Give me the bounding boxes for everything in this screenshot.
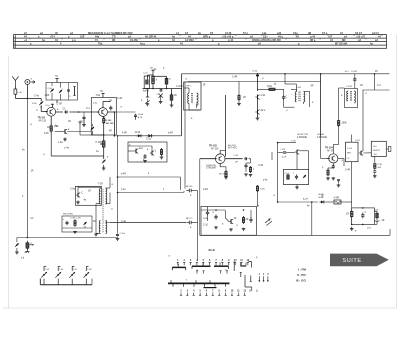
switch contact <box>224 293 226 296</box>
node A <box>14 44 16 46</box>
node A <box>14 35 387 49</box>
wire <box>194 191 197 262</box>
wire <box>103 123 105 135</box>
node T1 <box>228 259 230 262</box>
node X2 <box>117 98 123 100</box>
wire <box>374 220 377 225</box>
switch bar <box>172 264 185 270</box>
node A <box>258 43 261 46</box>
ground <box>350 227 354 231</box>
svg-text:OSCILLATEUR p MF-FM: OSCILLATEUR p MF-FM <box>252 39 281 42</box>
capacitor C2 <box>63 108 69 113</box>
node V2 <box>297 273 306 277</box>
node A <box>14 40 16 42</box>
wire <box>50 116 52 125</box>
svg-text:4a p: 4a p <box>140 43 145 46</box>
resistor R15 <box>160 148 162 156</box>
svg-text:1-08: 1-08 <box>45 95 50 97</box>
node W <box>330 254 389 267</box>
node R2 <box>63 214 73 216</box>
wire <box>200 234 390 236</box>
svg-text:MO: MO <box>374 146 378 148</box>
ground <box>73 231 77 234</box>
svg-text:C-10a: C-10a <box>120 233 126 235</box>
node X2 <box>121 174 126 176</box>
svg-text:TR-103: TR-103 <box>209 146 217 148</box>
svg-text:1R: 1R <box>31 171 34 173</box>
capacitor C22 <box>249 217 252 223</box>
node X2 <box>287 110 289 112</box>
node T1 <box>222 259 224 262</box>
ground <box>116 238 120 241</box>
node A <box>24 32 28 35</box>
node I3 <box>206 164 217 170</box>
node X2 <box>186 79 188 81</box>
node A <box>340 32 343 35</box>
diode D3 <box>147 134 153 137</box>
resistor R8 <box>249 166 255 173</box>
node X2 <box>203 218 209 220</box>
node A <box>210 32 214 35</box>
node N <box>201 206 257 235</box>
node A <box>203 36 211 39</box>
node X1 <box>243 97 246 99</box>
node X2 <box>258 165 264 167</box>
switch contact <box>202 262 204 265</box>
resistor R14 <box>47 127 50 129</box>
node G2 <box>143 69 157 75</box>
wire <box>8 56 10 308</box>
node X2 <box>96 151 99 153</box>
wire <box>245 38 247 39</box>
trimmer capacitor C23 <box>91 124 95 135</box>
node A <box>296 36 299 39</box>
svg-text:4a0%: 4a0% <box>143 91 149 93</box>
node E2 <box>104 120 114 125</box>
node X2 <box>232 77 238 79</box>
svg-text:2R a: 2R a <box>261 110 267 112</box>
node X2 <box>130 145 132 147</box>
node X2 <box>360 85 363 87</box>
inductor L1 <box>14 86 22 98</box>
wire <box>170 102 174 107</box>
node L <box>303 198 308 201</box>
capacitor C14 <box>332 163 335 169</box>
node X2 <box>150 68 153 70</box>
switch contact <box>209 262 211 265</box>
node A <box>55 32 58 35</box>
node C2 <box>46 104 63 108</box>
ground <box>102 165 106 170</box>
wire <box>199 159 201 236</box>
wire <box>83 35 85 36</box>
node X2 <box>355 231 357 233</box>
node X2 <box>147 149 149 151</box>
svg-text:L3 OSC: L3 OSC <box>185 39 194 42</box>
node K0 <box>291 140 296 142</box>
wire <box>62 227 92 229</box>
switch contact <box>196 271 198 274</box>
wire <box>17 237 118 239</box>
wire <box>56 111 100 113</box>
node A <box>243 32 248 35</box>
node X2 <box>168 133 173 135</box>
wire <box>277 143 279 185</box>
svg-text:T6a: T6a <box>98 43 103 46</box>
wire <box>40 279 92 285</box>
svg-text:p a: p a <box>72 39 76 42</box>
node G1 <box>144 76 149 89</box>
switch contact <box>226 271 228 274</box>
node X2 <box>256 257 258 259</box>
wire <box>51 104 54 107</box>
capacitor C32 <box>116 233 126 237</box>
electrolytic C15 <box>285 173 290 179</box>
wire <box>41 105 48 111</box>
wire <box>365 38 367 39</box>
svg-text:a-4R: a-4R <box>168 133 173 135</box>
svg-text:44-150: 44-150 <box>130 39 138 42</box>
wire <box>171 89 173 95</box>
wire <box>100 91 104 97</box>
svg-text:L-06: L-06 <box>17 92 22 94</box>
capacitor C34 <box>373 168 376 174</box>
wire <box>205 35 207 36</box>
wire <box>220 164 226 172</box>
node X2 <box>307 206 310 208</box>
trimmer capacitor C28 <box>15 238 19 252</box>
capacitor C18 <box>361 212 366 218</box>
node X2 <box>121 221 127 223</box>
transistor TR1 <box>45 107 56 116</box>
svg-text:4R: 4R <box>109 131 112 133</box>
svg-text:DETECTOR: DETECTOR <box>297 134 309 136</box>
node A <box>172 36 175 39</box>
diode D1 <box>135 132 143 138</box>
node A <box>310 39 316 42</box>
node A <box>68 36 70 39</box>
svg-text:a-4R: a-4R <box>121 174 126 176</box>
svg-text:4R: 4R <box>93 221 96 223</box>
svg-text:FM-4 MHz: FM-4 MHz <box>63 214 73 216</box>
svg-text:1R: 1R <box>203 85 206 87</box>
node X2 <box>342 160 344 162</box>
node P <box>128 142 167 162</box>
svg-text:C-6R: C-6R <box>296 87 301 89</box>
wire <box>148 75 154 80</box>
switch contact <box>231 293 233 296</box>
node A <box>172 39 175 42</box>
svg-text:1R: 1R <box>346 214 349 216</box>
wire <box>278 152 295 154</box>
wire <box>332 168 334 176</box>
capacitor C12 <box>234 155 248 163</box>
node G4 <box>176 86 183 88</box>
wire <box>103 38 105 39</box>
node A <box>330 39 333 42</box>
svg-text:TR-102: TR-102 <box>104 120 112 122</box>
wire <box>61 38 63 39</box>
svg-text:II : PO: II : PO <box>297 273 306 277</box>
switch contact <box>247 262 249 265</box>
node A <box>14 37 16 39</box>
connector J1 <box>25 79 35 85</box>
node A <box>95 39 98 42</box>
node H3 <box>297 134 309 139</box>
switch bar <box>204 287 217 289</box>
node O <box>78 120 81 125</box>
svg-text:57 p: 57 p <box>243 32 248 35</box>
ground <box>15 252 19 254</box>
node X2 <box>312 102 314 104</box>
resistor R17 <box>237 82 241 106</box>
node H <box>257 73 376 75</box>
node X2 <box>112 209 114 211</box>
antenna ANT <box>12 77 18 87</box>
node U <box>259 274 270 276</box>
node Y2 <box>346 142 359 162</box>
svg-text:1R: 1R <box>174 95 177 97</box>
capacitor C16 <box>293 173 298 180</box>
svg-text:ALT-PTU: ALT-PTU <box>228 144 237 147</box>
svg-text:C-10L: C-10L <box>347 148 353 150</box>
node B <box>27 98 29 100</box>
switch contact <box>205 293 207 296</box>
svg-text:I : FM: I : FM <box>298 268 306 272</box>
node A <box>185 32 189 35</box>
svg-text:L-0a: L-0a <box>58 142 63 144</box>
switch bar <box>173 283 226 286</box>
svg-text:LIGATURE: LIGATURE <box>206 164 217 167</box>
svg-text:AFT-ATC: AFT-ATC <box>228 147 238 150</box>
node X2 <box>148 173 150 175</box>
node T2 <box>206 290 208 293</box>
wire <box>320 74 322 137</box>
wire <box>82 120 86 127</box>
node X2 <box>31 218 35 220</box>
svg-text:C-0R: C-0R <box>281 149 286 151</box>
svg-text:T-0a: T-0a <box>96 95 101 97</box>
transformer T1 winding 2 <box>99 189 107 234</box>
potentiometer P1 <box>96 140 106 149</box>
node A <box>40 32 43 35</box>
node T2 <box>225 290 227 293</box>
resistor R1 <box>50 124 59 133</box>
svg-text:C-3R: C-3R <box>57 104 63 106</box>
node A <box>222 36 234 39</box>
wire <box>55 131 91 133</box>
wire <box>67 226 85 228</box>
node T2 <box>187 290 189 293</box>
wire <box>184 88 189 93</box>
node T2 <box>219 290 221 293</box>
svg-text:1R: 1R <box>243 97 246 99</box>
node H2 <box>345 71 378 73</box>
chassis <box>25 250 30 253</box>
node M <box>352 208 375 225</box>
svg-text:1R: 1R <box>47 127 50 129</box>
ground <box>63 138 67 141</box>
wire <box>284 106 295 108</box>
transistor TR3 <box>214 154 225 164</box>
node A <box>14 47 16 49</box>
node A <box>293 32 298 35</box>
svg-text:C-4R C-1R: C-4R C-1R <box>70 218 81 220</box>
node X2 <box>88 191 91 193</box>
node X2 <box>146 139 152 141</box>
svg-text:MT DE MA: MT DE MA <box>335 43 348 46</box>
wire <box>152 73 154 76</box>
wire <box>118 176 181 178</box>
switch contact <box>186 293 188 296</box>
wire <box>50 132 52 156</box>
svg-text:C-1R: C-1R <box>117 98 123 100</box>
switch contact <box>234 262 236 265</box>
svg-text:STROBAT: STROBAT <box>206 167 217 170</box>
wire <box>374 74 376 90</box>
capacitor C13 <box>244 164 247 172</box>
node T2 <box>231 290 234 293</box>
svg-text:C-1a: C-1a <box>146 139 152 141</box>
wire <box>27 97 41 99</box>
svg-text:SC-B: SC-B <box>208 248 214 252</box>
trimmer capacitor CT4 <box>84 267 93 285</box>
node J <box>325 147 334 153</box>
wire <box>26 98 28 237</box>
switch contact <box>183 262 185 265</box>
svg-text:9V: 9V <box>100 91 103 93</box>
node A <box>145 36 157 39</box>
switch contact <box>219 271 221 274</box>
trimmer capacitor C24 <box>102 160 106 164</box>
node A <box>225 32 232 35</box>
svg-text:C-0R: C-0R <box>285 173 290 175</box>
node X2 <box>322 167 324 169</box>
wire <box>118 135 138 137</box>
node A <box>218 43 220 46</box>
transformer MF1 winding <box>188 93 198 105</box>
switch contact <box>240 273 242 278</box>
wire <box>374 156 376 163</box>
node A <box>375 39 378 42</box>
capacitor C31 <box>160 89 163 92</box>
wire <box>225 158 243 160</box>
wire <box>311 201 313 235</box>
node X2 <box>122 133 127 135</box>
node A <box>176 32 180 35</box>
wire <box>381 35 383 36</box>
wire <box>26 85 28 99</box>
switch contact <box>250 276 252 282</box>
node X2 <box>274 195 276 197</box>
capacitor C11 <box>351 71 358 89</box>
electrolytic C19 <box>374 210 379 222</box>
node F <box>78 111 80 113</box>
svg-text:III : GO: III : GO <box>296 279 307 283</box>
node X2 <box>257 206 260 208</box>
wire <box>92 134 104 136</box>
switch S1b <box>159 94 163 102</box>
capacitor C6 <box>80 112 86 124</box>
capacitor C25 <box>144 154 147 159</box>
node Q <box>75 184 103 206</box>
node U3 <box>258 280 268 282</box>
node A <box>140 43 145 46</box>
trimmer capacitor C4 <box>59 83 62 100</box>
wire <box>338 158 344 166</box>
switch contact <box>177 262 179 265</box>
electrolytic C9 <box>170 93 177 102</box>
svg-text:C-4a: C-4a <box>121 221 127 223</box>
ground <box>146 103 150 106</box>
svg-text:P-1R: P-1R <box>378 164 383 166</box>
node X2 <box>377 85 381 87</box>
node T2 <box>199 290 201 293</box>
svg-text:p-1a: p-1a <box>121 189 126 191</box>
node A <box>278 36 283 39</box>
svg-text:10-06: 10-06 <box>135 132 142 134</box>
node X2 <box>203 85 206 87</box>
node C <box>38 118 47 123</box>
electrolytic C8 <box>165 77 171 85</box>
node T1 <box>177 259 179 262</box>
transformer T1 winding <box>99 189 107 205</box>
wire <box>103 147 105 159</box>
wire <box>184 82 186 189</box>
node X2 <box>274 84 277 86</box>
switch contact <box>221 262 223 265</box>
switch contact <box>228 262 230 265</box>
svg-text:A-1R: A-1R <box>138 116 143 119</box>
wire <box>353 35 355 36</box>
capacitor C15b <box>281 149 287 159</box>
ground <box>326 177 335 180</box>
wire <box>326 201 334 203</box>
svg-text:SUITE: SUITE <box>342 258 361 264</box>
capacitor C20 <box>203 206 209 226</box>
node A <box>30 43 32 46</box>
svg-text:4a1R: 4a1R <box>282 157 287 159</box>
node A <box>198 32 201 35</box>
svg-text:A-NR: A-NR <box>334 197 340 200</box>
ground <box>295 186 299 189</box>
resistor R2 <box>103 117 105 125</box>
node T2 <box>180 290 182 293</box>
node X2 <box>112 184 114 186</box>
transistor TR2 <box>97 108 108 117</box>
node X2 <box>163 189 165 191</box>
svg-text:C-10R: C-10R <box>351 71 358 73</box>
svg-text:1R: 1R <box>360 85 363 87</box>
wire <box>277 185 279 203</box>
node A <box>60 43 62 46</box>
svg-text:LEVIER: LEVIER <box>317 134 325 136</box>
wire <box>296 154 298 169</box>
node A <box>344 36 347 39</box>
wire <box>96 232 101 234</box>
wire <box>77 186 79 192</box>
wire <box>271 152 273 160</box>
svg-text:1R: 1R <box>382 220 385 222</box>
node A <box>130 39 138 42</box>
svg-text:T-1R: T-1R <box>98 184 103 186</box>
resistor R11 <box>334 197 342 204</box>
resistor R6 <box>337 119 347 126</box>
ground <box>373 175 377 178</box>
wire <box>321 137 330 158</box>
wire <box>180 177 182 190</box>
wire <box>338 126 340 145</box>
